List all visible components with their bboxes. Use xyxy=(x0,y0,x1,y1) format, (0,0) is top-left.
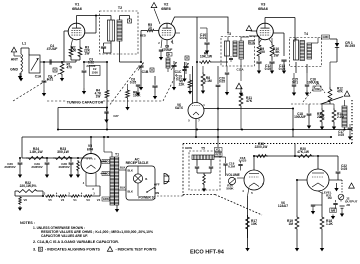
V2 bottom pins xyxy=(161,39,162,48)
wire det feed x218 xyxy=(217,66,219,84)
ground jack xyxy=(341,208,343,212)
ratio det caps xyxy=(195,166,199,168)
wire main bus lower xyxy=(22,136,331,138)
V2 grid wire xyxy=(141,30,146,32)
svg-text:1500: 1500 xyxy=(92,71,99,75)
V1 screen wire xyxy=(85,32,96,34)
ground output left xyxy=(331,215,335,220)
svg-text:0.05: 0.05 xyxy=(130,80,137,84)
svg-text:2200,1W: 2200,1W xyxy=(255,145,268,149)
volume pot R16 xyxy=(228,177,235,184)
svg-text:RED: RED xyxy=(103,160,109,164)
V1 plate wire xyxy=(76,16,78,24)
svg-text:22K: 22K xyxy=(179,82,186,86)
wire V1 grid xyxy=(63,31,65,62)
svg-text:V2: V2 xyxy=(61,198,65,202)
heater V5 xyxy=(45,195,55,197)
svg-text:3.: 3. xyxy=(33,248,36,252)
wire x295 from chassis xyxy=(294,144,296,157)
svg-text:IN 295: IN 295 xyxy=(345,44,355,48)
T3 top leads xyxy=(227,37,229,42)
svg-text:6BE6: 6BE6 xyxy=(161,7,170,11)
label RED T3 boxed xyxy=(249,41,255,45)
svg-text:C1A: C1A xyxy=(35,75,42,79)
svg-text:BLK: BLK xyxy=(128,190,134,194)
ground R13 xyxy=(320,124,324,130)
svg-text:0.01: 0.01 xyxy=(176,77,182,81)
svg-text:6BA6: 6BA6 xyxy=(72,7,82,11)
svg-text:1M: 1M xyxy=(288,222,293,226)
junction C4 xyxy=(43,61,45,63)
capacitor C27 bypass xyxy=(106,106,108,108)
level pot R21 xyxy=(338,194,344,200)
svg-text:NOTES :: NOTES : xyxy=(20,220,35,225)
svg-text:b: b xyxy=(40,247,42,251)
V4 cathode down xyxy=(195,119,197,138)
ground C15 xyxy=(292,90,296,96)
wire main bus upper xyxy=(58,129,352,131)
wire R6 down xyxy=(127,99,129,105)
T4 primary form xyxy=(294,40,299,60)
svg-text:L1: L1 xyxy=(22,42,26,46)
aligning point AL C6 xyxy=(53,68,57,72)
ground C13 xyxy=(270,68,274,74)
heater row junction dots xyxy=(56,195,57,196)
dashed link y104 xyxy=(291,103,321,105)
svg-text:0.05: 0.05 xyxy=(341,167,348,171)
T2 secondary winding xyxy=(117,20,122,41)
wire C10 top xyxy=(206,28,208,33)
boxed label 50B xyxy=(313,86,321,91)
svg-text:12AU7: 12AU7 xyxy=(278,204,288,208)
ground C18 xyxy=(307,123,311,129)
svg-text:300,1W: 300,1W xyxy=(57,150,70,154)
svg-text:ANT: ANT xyxy=(11,58,19,62)
svg-text:220,1W,5%: 220,1W,5% xyxy=(20,184,37,188)
svg-text:47K: 47K xyxy=(337,90,344,94)
svg-text:500K: 500K xyxy=(226,186,234,190)
svg-text:0.2M: 0.2M xyxy=(228,164,235,168)
svg-text:40/350V: 40/350V xyxy=(58,165,70,169)
svg-text:1M: 1M xyxy=(327,196,332,200)
label GRN T4 boxed xyxy=(322,35,330,39)
ground L1 xyxy=(19,76,23,81)
wire CR1 down xyxy=(336,47,338,62)
svg-text:6X4: 6X4 xyxy=(87,147,93,151)
dashed switch link xyxy=(157,195,183,197)
wire R6 top xyxy=(127,84,129,89)
jack symbol xyxy=(340,205,345,207)
svg-text:VOLUME: VOLUME xyxy=(226,173,240,177)
T3 bottom leads xyxy=(226,56,228,66)
ground shield braid xyxy=(334,183,338,191)
heater V6 resistor xyxy=(19,196,22,205)
svg-text:GRN: GRN xyxy=(185,146,192,150)
ground C19 xyxy=(182,76,186,82)
svg-text:C1C: C1C xyxy=(175,70,182,74)
svg-text:T3: T3 xyxy=(227,32,231,36)
tube V4 6AV6 xyxy=(244,170,264,190)
svg-text:POWER S1: POWER S1 xyxy=(138,195,155,199)
tube V6 12AU7 xyxy=(307,169,329,191)
test point antenna xyxy=(11,47,16,52)
svg-text:100K: 100K xyxy=(133,93,141,97)
svg-text:470: 470 xyxy=(67,65,73,69)
T2 bottom leads xyxy=(110,41,112,53)
aligning point AL L2 xyxy=(167,53,173,57)
ground R1 xyxy=(60,76,64,81)
ground C1C xyxy=(172,84,176,90)
ground R19 xyxy=(296,231,298,246)
wire heater row xyxy=(14,191,16,196)
V5 cathode wire xyxy=(90,137,92,154)
svg-text:2.2M: 2.2M xyxy=(337,115,344,119)
junction T2 xyxy=(106,61,108,63)
svg-text:6BA6: 6BA6 xyxy=(258,7,268,11)
svg-text:20/350V: 20/350V xyxy=(31,165,43,169)
svg-text:CAPACITOR VALUES ARE UF.: CAPACITOR VALUES ARE UF. xyxy=(41,234,88,238)
aligning point AL T2 xyxy=(128,19,132,23)
ground C28 xyxy=(69,172,73,178)
svg-text:10K: 10K xyxy=(251,222,258,226)
svg-text:0.1M: 0.1M xyxy=(204,79,212,83)
ground C17 xyxy=(348,134,352,140)
pilot lamp I1 xyxy=(133,174,142,183)
ground C16 xyxy=(305,90,309,96)
wire diag to test point xyxy=(321,97,343,105)
ground C1B xyxy=(139,84,143,90)
test point de-emphasis xyxy=(344,91,350,96)
V5 plate wires xyxy=(101,161,108,163)
T3 capacitor inside xyxy=(229,58,233,60)
label GRN xyxy=(102,197,110,201)
chassis dotted vertical right xyxy=(351,100,353,144)
V5 heater pins xyxy=(85,173,87,187)
aligning point AL C1C xyxy=(185,56,189,60)
junction audio xyxy=(294,155,296,157)
wire AVC riser x58 xyxy=(57,108,59,130)
wire T4 bottom leads xyxy=(295,62,297,73)
ground C27 xyxy=(106,113,108,117)
V4 plate wire xyxy=(253,156,255,170)
svg-text:C11A: C11A xyxy=(237,67,244,71)
test point T3 xyxy=(236,83,242,89)
svg-text:C27: C27 xyxy=(113,114,119,118)
svg-text:V1: V1 xyxy=(73,198,77,202)
ground C9 xyxy=(153,93,157,99)
svg-text:0.01: 0.01 xyxy=(292,81,298,85)
wire R11 down xyxy=(240,108,242,130)
ground heater V6 xyxy=(18,206,22,211)
wire x197 long xyxy=(196,17,198,103)
svg-text:TUNING CAPACITOR: TUNING CAPACITOR xyxy=(67,101,104,105)
wire rail x297 xyxy=(296,180,298,215)
svg-text:JO: JO xyxy=(346,203,351,207)
variable capacitor C1A xyxy=(29,55,40,73)
chassis dashed diagonal xyxy=(215,195,262,216)
chassis dashed vertical left xyxy=(182,144,184,197)
ground C10 xyxy=(205,48,209,54)
heater V3 xyxy=(83,195,93,197)
test point V3 grid xyxy=(246,26,252,31)
svg-text:RECEPTACLE: RECEPTACLE xyxy=(126,161,150,165)
V4 plate line xyxy=(204,108,293,110)
ground C29 xyxy=(45,172,49,178)
V3 bottom pins xyxy=(259,39,262,43)
wire pot down xyxy=(340,200,342,202)
svg-text:0.05: 0.05 xyxy=(219,80,225,84)
ground R18b xyxy=(321,231,323,246)
svg-text:2. C1A,B,C IS A 3-GANG VARIAB: 2. C1A,B,C IS A 3-GANG VARIABLE CAPACITO… xyxy=(33,240,119,244)
svg-text:GND: GND xyxy=(10,68,18,72)
svg-text:C1B: C1B xyxy=(142,70,149,74)
svg-text:V3: V3 xyxy=(86,198,90,202)
svg-text:20/350V: 20/350V xyxy=(4,165,16,169)
svg-text:0.01: 0.01 xyxy=(200,36,207,40)
ground ratio det xyxy=(202,186,206,192)
capacitor C9 xyxy=(152,85,157,87)
boxed label C23 470 xyxy=(330,208,336,213)
wire B+ branch y158 xyxy=(21,137,23,158)
ratio det resistor xyxy=(203,173,206,186)
svg-text:I1: I1 xyxy=(145,177,148,181)
capacitor C7 in T2 xyxy=(101,46,106,48)
heater V2 xyxy=(58,195,68,197)
V2 plate wire top xyxy=(171,17,228,33)
svg-text:BLK: BLK xyxy=(120,166,126,170)
T1 secondary top lead xyxy=(111,152,113,157)
V1 cathode pins xyxy=(71,39,73,46)
dashed coupling diagonals xyxy=(303,83,318,102)
label RED2 xyxy=(102,172,110,176)
label RED boxed xyxy=(215,153,223,157)
svg-text:50B: 50B xyxy=(314,87,319,91)
test point V2 grid xyxy=(151,3,157,8)
svg-text:10K,1W: 10K,1W xyxy=(200,55,213,59)
T3 secondary winding xyxy=(239,41,244,59)
coil L2 oscillator xyxy=(166,58,170,68)
ground TP T3 xyxy=(239,91,243,96)
capacitor C23 xyxy=(333,203,337,205)
wire T2 to V2 xyxy=(120,61,142,63)
ground R14 xyxy=(332,124,336,130)
capacitor C7 bypass xyxy=(83,62,85,70)
svg-text:T4: T4 xyxy=(304,32,308,36)
junction dots on buses xyxy=(106,128,108,130)
svg-text:T2: T2 xyxy=(118,6,122,10)
ground R6 xyxy=(125,105,129,110)
ground C6 xyxy=(43,82,45,90)
V6 grid wire xyxy=(297,179,307,181)
ground V1 cathode xyxy=(70,58,72,60)
svg-text:1W: 1W xyxy=(273,53,279,57)
svg-text:OFF: OFF xyxy=(154,182,160,186)
svg-text:BLK: BLK xyxy=(128,169,134,173)
V3 screen pin xyxy=(273,32,284,34)
svg-text:EICO HFT-94: EICO HFT-94 xyxy=(190,250,225,256)
wire x107 to bus xyxy=(106,99,108,130)
V3 plate wire xyxy=(264,18,266,24)
variable capacitor C1B xyxy=(140,61,142,63)
T3 primary winding xyxy=(233,41,237,57)
AC receptacle outline xyxy=(126,166,155,200)
coil L3 winding xyxy=(342,106,347,127)
wire AVC line xyxy=(58,107,107,109)
chassis dotted line horizontal xyxy=(183,143,352,145)
wire x293 down xyxy=(292,109,294,138)
variable capacitor C2 xyxy=(183,66,188,68)
T4 primary winding xyxy=(300,41,305,61)
chassis dotted vertical output xyxy=(341,180,343,194)
capacitor C13 xyxy=(269,61,274,63)
V2 screen pin xyxy=(175,32,180,34)
wire audio y156 xyxy=(254,155,338,157)
label RED xyxy=(102,160,110,164)
V4 cathode down xyxy=(248,188,250,197)
svg-text:- INDICATES ALIGNING POINTS: - INDICATES ALIGNING POINTS xyxy=(45,248,100,252)
ground R25 xyxy=(76,172,80,178)
resistor R25 xyxy=(77,160,80,172)
aligning point AL C1B xyxy=(150,68,154,72)
svg-text:0.05: 0.05 xyxy=(338,133,344,137)
T1 ground lead xyxy=(116,205,118,206)
svg-text:- INDICATE TEST POINTS: - INDICATE TEST POINTS xyxy=(116,248,157,252)
ground GND terminal xyxy=(18,73,22,79)
variable capacitor C1C xyxy=(171,65,176,67)
tuning capacitor gang dashed links xyxy=(13,80,47,101)
boxed label C2 1500 xyxy=(90,66,101,76)
ground R8 xyxy=(201,88,205,94)
svg-text:47K,1W: 47K,1W xyxy=(297,150,310,154)
T1 primary leads xyxy=(119,169,126,171)
ground C8 xyxy=(160,51,162,55)
svg-text:GRN: GRN xyxy=(323,35,329,39)
ground C12 xyxy=(257,68,261,74)
ground C21b xyxy=(312,206,314,209)
svg-text:RED: RED xyxy=(249,42,254,44)
svg-text:1.2K: 1.2K xyxy=(326,222,334,226)
wire C22 to shield xyxy=(338,179,342,181)
ground C11 xyxy=(225,90,229,95)
wire grid bus xyxy=(40,61,76,63)
ground C7 xyxy=(83,72,85,88)
svg-text:T1: T1 xyxy=(115,153,119,157)
svg-text:V4: V4 xyxy=(97,198,101,202)
ratio det winding leads xyxy=(214,156,218,158)
T2 top leads xyxy=(110,16,112,21)
svg-text:BLK: BLK xyxy=(120,186,126,190)
wire heater to V5 pins xyxy=(93,195,100,197)
svg-text:6AT6: 6AT6 xyxy=(175,106,183,110)
ratio detector transformer box xyxy=(189,151,220,190)
wire to T3 xyxy=(212,61,228,63)
capacitor C12 xyxy=(256,61,261,63)
V6 plate wire xyxy=(317,156,319,169)
capacitor C14 0.05 xyxy=(281,59,286,61)
ground C8 osc xyxy=(137,86,139,90)
svg-text:47UUF: 47UUF xyxy=(47,47,58,51)
wire R13 R14 tops xyxy=(321,104,323,108)
svg-text:1W: 1W xyxy=(96,94,101,98)
ground R7 xyxy=(188,89,192,94)
ground C30 xyxy=(18,172,22,178)
wire rail x322 xyxy=(318,191,322,193)
note 3 test point symbol xyxy=(107,247,112,252)
wire L1 top xyxy=(21,47,29,49)
antenna lead wire xyxy=(13,52,15,56)
heater V1 xyxy=(70,195,81,197)
wire R22 to heater row xyxy=(40,190,43,192)
ground R17 xyxy=(247,231,249,246)
ground C14 xyxy=(282,68,286,74)
capacitor C8 xyxy=(136,84,140,86)
V4 pin wires xyxy=(192,66,194,103)
svg-text:RED: RED xyxy=(103,172,109,176)
svg-text:V6: V6 xyxy=(24,198,28,202)
svg-text:GRN: GRN xyxy=(103,197,109,201)
capacitor C21 cathode bypass xyxy=(315,204,322,206)
svg-text:0.025: 0.025 xyxy=(239,159,247,163)
T4 secondary winding xyxy=(307,43,312,59)
T3 primary form xyxy=(225,41,230,56)
svg-text:V5: V5 xyxy=(48,198,52,202)
T2 primary form xyxy=(108,20,115,41)
svg-text:1.8K,1W: 1.8K,1W xyxy=(29,150,43,154)
V1 grid pin xyxy=(64,30,68,32)
svg-text:T5: T5 xyxy=(201,147,205,151)
chassis dashed bottom edge xyxy=(183,194,215,196)
label YEL boxed xyxy=(215,148,223,152)
svg-text:47K: 47K xyxy=(246,99,253,103)
svg-text:100UUF: 100UUF xyxy=(294,115,306,119)
test point output xyxy=(349,183,355,188)
T4 primary top lead xyxy=(295,38,297,41)
AC plug xyxy=(164,174,169,184)
svg-text:47UUF: 47UUF xyxy=(162,48,173,52)
wire pot to grid xyxy=(237,177,244,179)
svg-text:ON: ON xyxy=(155,191,159,195)
capacitor C8 cathode xyxy=(159,49,163,51)
tuning capacitor dashed link right xyxy=(103,100,163,102)
V6 coupling wire xyxy=(329,179,338,181)
capacitor C11 xyxy=(225,72,229,74)
ratio det winding xyxy=(192,155,214,160)
